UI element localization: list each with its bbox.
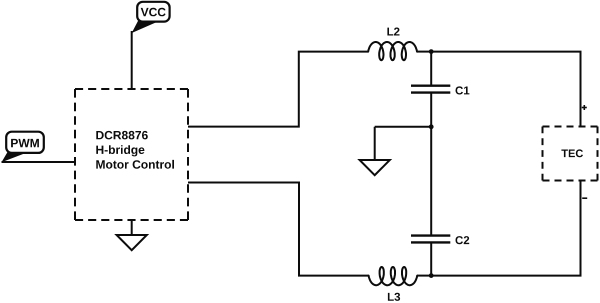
wire top rail to TEC — [431, 52, 580, 127]
node A (top junction) — [429, 49, 434, 54]
net flag VCC — [132, 2, 170, 33]
H-bridge motor controller U1 (DCR8876) — [75, 89, 188, 220]
inductor L2 — [368, 28, 417, 61]
minus polarity label — [582, 197, 587, 199]
wire L3 to node C — [417, 275, 431, 277]
inductor L3 — [369, 267, 418, 301]
wire upper output of U1 — [188, 52, 368, 127]
wire lower output of U1 — [188, 183, 369, 276]
wire bottom rail to TEC — [431, 181, 580, 276]
net flag PWM — [2, 132, 44, 163]
ground (mid) — [360, 127, 390, 175]
plus polarity label — [582, 105, 587, 110]
wire L2 to node A — [417, 51, 431, 53]
capacitor C1 — [411, 52, 469, 127]
wire node B to ground — [375, 126, 432, 128]
TEC module (dashed box) — [543, 127, 598, 181]
capacitor C2 — [411, 127, 469, 276]
node B (C1 / C2 / ground junction) — [429, 124, 434, 129]
wire VCC to controller — [131, 31, 133, 90]
ground at controller — [117, 220, 147, 250]
wire PWM to controller — [2, 161, 76, 163]
node C (bottom junction) — [429, 273, 434, 278]
